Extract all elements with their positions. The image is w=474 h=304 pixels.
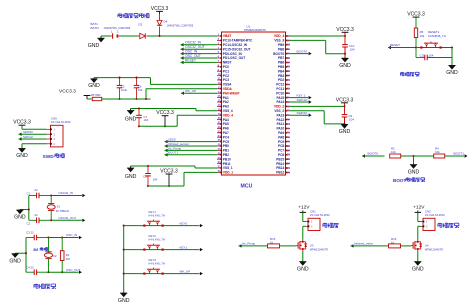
label R6 56R bbox=[91, 93, 100, 97]
svg-text:BATM: BATM bbox=[91, 26, 100, 30]
svg-text:BOOT0: BOOT0 bbox=[368, 152, 379, 156]
capacitor C10 bbox=[342, 32, 348, 57]
op-amp U1 MCU STM32F103RCT6 bbox=[217, 24, 290, 175]
svg-text:BOOT1: BOOT1 bbox=[454, 152, 465, 156]
svg-text:44: 44 bbox=[287, 122, 290, 126]
label X1 32.768kHz bbox=[56, 204, 70, 212]
wire crystal1 left rail bbox=[28, 196, 30, 221]
net label OSC_OUT wire to MCU bbox=[181, 54, 218, 60]
svg-text:PA3: PA3 bbox=[223, 105, 229, 109]
ground (C9) bbox=[339, 124, 351, 135]
svg-text:BOOT0: BOOT0 bbox=[297, 49, 308, 53]
svg-text:OSC32_IN: OSC32_IN bbox=[58, 191, 73, 195]
svg-text:104: 104 bbox=[138, 88, 143, 92]
capacitor C3 bbox=[26, 235, 63, 241]
svg-text:KEY1: KEY1 bbox=[149, 210, 157, 214]
svg-text:104: 104 bbox=[144, 118, 149, 122]
svg-text:40: 40 bbox=[287, 140, 290, 144]
svg-text:PD1-OSC_OUT: PD1-OSC_OUT bbox=[223, 56, 245, 60]
wire VDDA to MCU bbox=[145, 89, 217, 100]
net label KEY 1 wire from MCU bbox=[290, 93, 312, 99]
wire reset right branch bbox=[451, 46, 453, 64]
label 3 (Chinese) bbox=[323, 223, 339, 228]
svg-text:C4 22: C4 22 bbox=[26, 265, 34, 269]
power VCC3.3 (VDD_4) bbox=[156, 110, 174, 127]
svg-text:PA0-WKUP: PA0-WKUP bbox=[223, 91, 240, 95]
label X2 bbox=[53, 254, 57, 258]
svg-text:32.768kHz: 32.768kHz bbox=[56, 209, 70, 213]
net label OSC_OUT (crystal2) bbox=[49, 268, 82, 274]
svg-text:PC14-OSC32_IN: PC14-OSC32_IN bbox=[223, 43, 248, 47]
svg-text:OSC_OUT: OSC_OUT bbox=[185, 54, 201, 58]
svg-text:PA5: PA5 bbox=[223, 122, 229, 126]
svg-text:SWCLK: SWCLK bbox=[23, 135, 33, 139]
wire VDD_4 rail bbox=[139, 115, 217, 126]
svg-text:MPW1204N/TR: MPW1204N/TR bbox=[425, 247, 443, 251]
crystal X2 bbox=[45, 238, 53, 273]
label KEY1 bbox=[149, 210, 165, 218]
svg-text:OSC_IN: OSC_IN bbox=[185, 50, 198, 54]
svg-text:C8: C8 bbox=[143, 175, 147, 179]
connector CN9 bbox=[47, 125, 64, 147]
net label RESET wire bbox=[388, 43, 417, 49]
net label LED0 wire to MCU bbox=[165, 138, 218, 144]
capacitor C1 bbox=[29, 193, 52, 199]
svg-text:18: 18 bbox=[218, 107, 221, 111]
svg-text:GND: GND bbox=[297, 267, 309, 273]
net label WK_UP (keys) bbox=[180, 269, 203, 275]
svg-text:28: 28 bbox=[218, 151, 221, 155]
ground (U3) bbox=[297, 251, 309, 273]
svg-text:63: 63 bbox=[287, 38, 290, 42]
battery BAT1 bbox=[111, 31, 120, 39]
svg-text:PB9: PB9 bbox=[278, 43, 284, 47]
ground (boot) bbox=[408, 155, 420, 175]
svg-text:10k: 10k bbox=[435, 150, 440, 154]
ground (battery) bbox=[88, 36, 105, 49]
svg-text:13: 13 bbox=[218, 85, 221, 89]
svg-text:PC3: PC3 bbox=[223, 78, 229, 82]
svg-text:31: 31 bbox=[218, 165, 221, 169]
svg-text:C3 22: C3 22 bbox=[26, 230, 34, 234]
diode D2 bbox=[138, 33, 148, 38]
svg-text:PA7: PA7 bbox=[223, 131, 229, 135]
svg-text:59: 59 bbox=[287, 56, 290, 60]
svg-text:50: 50 bbox=[287, 96, 290, 100]
svg-text:34: 34 bbox=[287, 166, 290, 170]
label C10 104 bbox=[349, 44, 355, 52]
svg-text:24: 24 bbox=[218, 134, 221, 138]
svg-text:BOOT0: BOOT0 bbox=[273, 52, 284, 56]
svg-text:PB0: PB0 bbox=[223, 144, 229, 148]
ground (keys) bbox=[118, 293, 130, 304]
svg-text:WK_UP: WK_UP bbox=[185, 89, 196, 93]
net label OSC32_IN (crystal) bbox=[51, 191, 85, 197]
wire SWD GND bbox=[22, 144, 47, 148]
wire VDD_3 to VCC rail bbox=[290, 35, 346, 37]
label C11 104 bbox=[420, 54, 434, 58]
svg-text:PB12: PB12 bbox=[276, 171, 284, 175]
wire analog gnd rail bbox=[94, 77, 151, 79]
svg-text:PB3: PB3 bbox=[278, 74, 284, 78]
label 8M crystal (Chinese) bbox=[33, 247, 47, 252]
wire VSSA to MCU bbox=[151, 78, 218, 85]
svg-text:52: 52 bbox=[287, 87, 290, 91]
capacitor C2 bbox=[29, 218, 52, 224]
svg-text:37: 37 bbox=[287, 153, 290, 157]
ground (C10) bbox=[339, 58, 351, 69]
ground (reset) bbox=[446, 65, 458, 76]
svg-text:PB6: PB6 bbox=[278, 61, 284, 65]
svg-text:1N4007WS_C2847395: 1N4007WS_C2847395 bbox=[104, 26, 131, 30]
svg-text:54: 54 bbox=[287, 78, 290, 82]
net label SWCLK wire (SWD) bbox=[19, 135, 47, 141]
svg-text:X1: X1 bbox=[57, 204, 61, 208]
svg-text:PA15: PA15 bbox=[276, 96, 284, 100]
svg-text:KAN4548_TH: KAN4548_TH bbox=[428, 34, 446, 38]
svg-text:PC9: PC9 bbox=[278, 140, 284, 144]
svg-text:GND: GND bbox=[339, 63, 351, 69]
svg-text:KEY 1: KEY 1 bbox=[297, 93, 306, 97]
svg-text:+12V: +12V bbox=[298, 205, 310, 211]
svg-text:55: 55 bbox=[287, 74, 290, 78]
svg-text:PB13: PB13 bbox=[276, 166, 284, 170]
svg-text:22: 22 bbox=[218, 125, 221, 129]
label C3 22 bbox=[26, 230, 34, 234]
resistor R2 bbox=[390, 154, 414, 158]
svg-text:PB11: PB11 bbox=[223, 162, 231, 166]
label R1 1M bbox=[66, 253, 71, 261]
label C6 104 bbox=[138, 85, 143, 92]
svg-text:33: 33 bbox=[287, 170, 290, 174]
svg-text:K4-6.4X6_TH: K4-6.4X6_TH bbox=[149, 262, 165, 266]
svg-text:GND: GND bbox=[88, 83, 100, 89]
svg-text:PC10: PC10 bbox=[276, 91, 284, 95]
svg-text:GND: GND bbox=[9, 258, 21, 264]
svg-text:X2: X2 bbox=[53, 254, 57, 258]
resistor R6 bbox=[87, 97, 151, 100]
svg-text:VBAT: VBAT bbox=[223, 34, 231, 38]
svg-text:U1: U1 bbox=[247, 24, 251, 28]
svg-text:VSS_3: VSS_3 bbox=[274, 39, 284, 43]
svg-text:VDD_2: VDD_2 bbox=[274, 105, 284, 109]
svg-text:BOOT: BOOT bbox=[393, 178, 406, 183]
svg-text:45: 45 bbox=[287, 118, 290, 122]
svg-text:PD2: PD2 bbox=[278, 78, 284, 82]
svg-text:GND: GND bbox=[16, 153, 28, 159]
ground (crystal2) bbox=[9, 252, 27, 264]
net label BOOT0 (boot circuit) bbox=[362, 152, 385, 158]
svg-text:GND: GND bbox=[14, 215, 26, 221]
svg-text:CN9: CN9 bbox=[51, 117, 57, 121]
svg-text:49: 49 bbox=[287, 100, 290, 104]
svg-text:VSS_4: VSS_4 bbox=[223, 109, 233, 113]
power VCC3.3 (VDD_1) bbox=[160, 169, 178, 188]
svg-text:60: 60 bbox=[287, 52, 290, 56]
label SWD download (Chinese) bbox=[43, 153, 65, 160]
svg-text:KEY0: KEY0 bbox=[180, 221, 188, 225]
power VCC3.3 (VDD_2) bbox=[336, 97, 354, 103]
transistor U4 bbox=[412, 240, 423, 251]
svg-text:10k: 10k bbox=[420, 34, 425, 38]
svg-text:48: 48 bbox=[287, 104, 290, 108]
svg-text:PC2: PC2 bbox=[223, 74, 229, 78]
net label Infrared_valve wire bbox=[351, 241, 389, 247]
svg-text:12: 12 bbox=[218, 81, 221, 85]
svg-text:GND: GND bbox=[88, 43, 100, 49]
svg-text:R6 56R: R6 56R bbox=[91, 93, 100, 97]
connector CN2 bbox=[421, 218, 436, 230]
svg-text:C2: C2 bbox=[27, 221, 31, 225]
svg-text:32: 32 bbox=[218, 169, 221, 173]
label R16 1k bbox=[391, 237, 397, 245]
resistor R1 bbox=[60, 238, 64, 273]
svg-text:53: 53 bbox=[287, 82, 290, 86]
svg-text:OSC_IN: OSC_IN bbox=[66, 233, 77, 237]
svg-text:RESET: RESET bbox=[390, 43, 400, 47]
svg-text:PC5: PC5 bbox=[223, 140, 229, 144]
svg-text:1N4007WS_C2847395: 1N4007WS_C2847395 bbox=[167, 23, 194, 27]
net label KEY1 (keys) bbox=[180, 245, 203, 251]
svg-text:PB14: PB14 bbox=[276, 162, 284, 166]
label C8 104 bbox=[143, 175, 158, 182]
svg-text:VDD_3: VDD_3 bbox=[274, 34, 284, 38]
svg-text:OSC_OUT: OSC_OUT bbox=[66, 268, 81, 272]
svg-text:SWDIO: SWDIO bbox=[297, 111, 308, 115]
svg-text:PB4: PB4 bbox=[278, 69, 284, 73]
net label SWCLK wire from MCU bbox=[290, 98, 312, 104]
svg-text:GND: GND bbox=[118, 298, 130, 304]
svg-text:VCC3.3: VCC3.3 bbox=[336, 27, 354, 33]
label C4 22 bbox=[26, 265, 34, 269]
svg-text:10k: 10k bbox=[391, 150, 396, 154]
label RESET1 bbox=[428, 30, 446, 38]
label D2 value bbox=[104, 23, 143, 30]
push button KEY3 bbox=[123, 268, 200, 275]
svg-text:PC12: PC12 bbox=[276, 83, 284, 87]
svg-text:NRST: NRST bbox=[223, 61, 232, 65]
connector CN1 bbox=[306, 218, 321, 230]
svg-text:16: 16 bbox=[218, 99, 221, 103]
svg-text:U3: U3 bbox=[310, 244, 314, 248]
label MCU bbox=[241, 184, 253, 190]
svg-text:+12V: +12V bbox=[413, 205, 425, 211]
svg-text:57: 57 bbox=[287, 65, 290, 69]
svg-text:PC11: PC11 bbox=[276, 87, 284, 91]
svg-text:10uF: 10uF bbox=[121, 88, 128, 92]
net label Air_Pump wire bbox=[239, 241, 268, 247]
svg-text:39: 39 bbox=[287, 144, 290, 148]
capacitor C5 bbox=[117, 77, 123, 101]
svg-text:29: 29 bbox=[218, 156, 221, 160]
svg-text:OSC32_IN: OSC32_IN bbox=[185, 41, 202, 45]
svg-text:PA6: PA6 bbox=[223, 127, 229, 131]
label U4 bbox=[425, 244, 443, 252]
svg-text:SWCLK: SWCLK bbox=[297, 98, 309, 102]
wire CN2 pin2 to transistor bbox=[418, 226, 421, 240]
label CN9 bbox=[51, 117, 71, 125]
svg-text:SWDIO: SWDIO bbox=[23, 130, 34, 134]
svg-text:PA9: PA9 bbox=[278, 131, 284, 135]
wire battery to VBAT bbox=[101, 35, 217, 37]
svg-text:41: 41 bbox=[287, 135, 290, 139]
ground (C8) bbox=[125, 166, 137, 180]
svg-text:PB2: PB2 bbox=[223, 153, 229, 157]
svg-text:58: 58 bbox=[287, 60, 290, 64]
svg-text:23: 23 bbox=[218, 129, 221, 133]
label button battery power (Chinese) bbox=[118, 13, 149, 18]
svg-text:20: 20 bbox=[218, 116, 221, 120]
capacitor C11 bbox=[416, 48, 452, 61]
push button KEY2 bbox=[123, 244, 200, 251]
svg-text:PA1: PA1 bbox=[223, 96, 229, 100]
wire +12V to CN2 bbox=[418, 212, 421, 221]
net label BOOT1 wire to MCU bbox=[165, 151, 218, 157]
svg-text:56: 56 bbox=[287, 69, 290, 73]
svg-text:51: 51 bbox=[287, 91, 290, 95]
svg-text:GND: GND bbox=[412, 267, 424, 273]
svg-text:61: 61 bbox=[287, 47, 290, 51]
wire VDD_1 rail bbox=[148, 172, 217, 186]
svg-text:21: 21 bbox=[218, 121, 221, 125]
svg-text:8M: 8M bbox=[33, 248, 38, 252]
svg-text:MPW1204N/TR: MPW1204N/TR bbox=[310, 247, 328, 251]
svg-text:D2: D2 bbox=[139, 23, 143, 27]
svg-text:62: 62 bbox=[287, 43, 290, 47]
net label OSC_IN (crystal2) bbox=[49, 233, 82, 239]
svg-text:VCC3.3: VCC3.3 bbox=[407, 12, 425, 18]
svg-text:42: 42 bbox=[287, 131, 290, 135]
svg-text:17: 17 bbox=[218, 103, 221, 107]
svg-text:VSS_2: VSS_2 bbox=[274, 109, 284, 113]
svg-text:Air_Pump: Air_Pump bbox=[168, 146, 182, 150]
svg-text:15: 15 bbox=[218, 94, 221, 98]
svg-text:VSSA: VSSA bbox=[223, 83, 232, 87]
svg-text:VCC3.3: VCC3.3 bbox=[151, 6, 169, 12]
svg-text:PB15: PB15 bbox=[276, 157, 284, 161]
svg-text:Infrared_sensor: Infrared_sensor bbox=[168, 142, 189, 146]
ground (crystal1) bbox=[14, 208, 30, 220]
svg-text:ZX-XH2.54-4P22: ZX-XH2.54-4P22 bbox=[51, 120, 71, 124]
svg-text:KEY1: KEY1 bbox=[180, 245, 188, 249]
svg-text:KEY2: KEY2 bbox=[149, 234, 157, 238]
net label BOOT0 wire from MCU bbox=[290, 49, 312, 55]
net label RESET wire to MCU bbox=[181, 58, 218, 64]
resistor R16 bbox=[389, 244, 412, 248]
svg-text:36: 36 bbox=[287, 157, 290, 161]
net label SWDIO wire from MCU bbox=[290, 111, 312, 117]
svg-text:WK_UP: WK_UP bbox=[180, 269, 191, 273]
wire VSS_3 to gnd bbox=[290, 40, 346, 54]
svg-text:PA14: PA14 bbox=[276, 100, 284, 104]
svg-text:PA10: PA10 bbox=[276, 127, 284, 131]
ground (analog filter) bbox=[88, 78, 100, 89]
power VCC3.3 (SWD) bbox=[13, 120, 31, 126]
capacitor C4 bbox=[26, 269, 63, 275]
svg-text:PA13: PA13 bbox=[276, 113, 284, 117]
capacitor C8 bbox=[145, 165, 151, 187]
svg-text:PC13-TAMPER-RTC: PC13-TAMPER-RTC bbox=[223, 39, 253, 43]
label C2 22 bbox=[27, 213, 39, 225]
power VCC3.3 (reset) bbox=[407, 12, 425, 18]
svg-text:26: 26 bbox=[218, 143, 221, 147]
svg-text:PB7: PB7 bbox=[278, 56, 284, 60]
net label KEY0 (keys) bbox=[180, 221, 203, 227]
svg-text:SWD: SWD bbox=[43, 154, 55, 160]
svg-text:MCU: MCU bbox=[241, 184, 253, 190]
svg-text:PB10: PB10 bbox=[223, 157, 231, 161]
svg-text:GND: GND bbox=[446, 70, 458, 76]
svg-text:104: 104 bbox=[350, 48, 355, 52]
wire VDD_2 to VCC bbox=[290, 105, 346, 107]
svg-text:K4-6.4X6_TH: K4-6.4X6_TH bbox=[149, 238, 165, 242]
label BAT1 BATM bbox=[91, 22, 100, 30]
net label OSC32_OUT wire to MCU bbox=[181, 45, 218, 51]
svg-text:GND: GND bbox=[125, 174, 137, 180]
resistor R4 bbox=[414, 154, 465, 158]
svg-text:GND: GND bbox=[408, 169, 420, 175]
capacitor C9 bbox=[342, 103, 348, 124]
svg-text:PC6: PC6 bbox=[278, 153, 284, 157]
wire VSS_2 to gnd bbox=[290, 111, 346, 125]
label 4 (Chinese) bbox=[438, 223, 459, 228]
net label Air_Pump wire to MCU bbox=[165, 146, 218, 152]
label R4 10k bbox=[435, 147, 440, 155]
resistor R15 bbox=[268, 244, 297, 248]
svg-text:CN1: CN1 bbox=[310, 210, 316, 214]
label C1 22 bbox=[27, 188, 39, 195]
wire +12V to CN1 bbox=[303, 212, 306, 221]
svg-text:PC7: PC7 bbox=[278, 149, 284, 153]
net label OSC32_IN wire to MCU bbox=[181, 41, 218, 47]
power +12V (CN1) bbox=[298, 205, 310, 213]
wire VSS_4 rail bbox=[131, 109, 217, 111]
net label OSC32_OUT (crystal) bbox=[51, 216, 85, 222]
net label OSC_IN wire to MCU bbox=[181, 50, 218, 56]
svg-text:19: 19 bbox=[218, 112, 221, 116]
wire CN1 pin2 to transistor bbox=[303, 226, 306, 240]
svg-text:PA2: PA2 bbox=[223, 100, 229, 104]
net label WK_UP wire to PA0 bbox=[181, 89, 217, 95]
svg-text:PA12: PA12 bbox=[276, 118, 284, 122]
svg-text:PA11: PA11 bbox=[277, 122, 285, 126]
net label SWDIO wire (SWD) bbox=[19, 130, 47, 136]
push button RESET1 bbox=[416, 42, 452, 49]
svg-text:PA4: PA4 bbox=[223, 118, 229, 122]
capacitor C6 bbox=[134, 77, 140, 101]
svg-text:VCC3.3: VCC3.3 bbox=[13, 120, 31, 126]
svg-text:PB1: PB1 bbox=[223, 149, 229, 153]
svg-text:ZX-XH2.54-2P22: ZX-XH2.54-2P22 bbox=[310, 213, 330, 217]
transistor U3 bbox=[297, 240, 308, 251]
label BOOT start circuit (Chinese) bbox=[393, 177, 425, 183]
svg-text:43: 43 bbox=[287, 126, 290, 130]
svg-text:22: 22 bbox=[35, 213, 39, 217]
diode D4 bbox=[157, 14, 162, 37]
svg-text:PC8: PC8 bbox=[278, 144, 284, 148]
svg-text:38: 38 bbox=[287, 148, 290, 152]
power VCC3.3 (battery diode) bbox=[151, 6, 169, 14]
label C9 104 bbox=[348, 114, 354, 122]
svg-text:VDD_4: VDD_4 bbox=[223, 113, 233, 117]
label U3 bbox=[310, 244, 328, 252]
svg-text:46: 46 bbox=[287, 113, 290, 117]
svg-text:14: 14 bbox=[218, 90, 221, 94]
svg-text:VCC3.3: VCC3.3 bbox=[59, 89, 76, 95]
svg-text:LED0: LED0 bbox=[168, 138, 176, 142]
label R5 10k bbox=[420, 30, 425, 38]
svg-text:64: 64 bbox=[287, 34, 290, 38]
